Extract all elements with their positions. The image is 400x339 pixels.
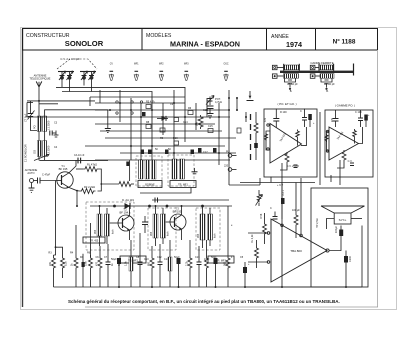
left page edge dark: [22, 29, 24, 307]
T3 transistor: [166, 206, 187, 240]
volume potentiometer: [206, 96, 214, 106]
amp3 wiring: [329, 236, 341, 251]
svg-text:CT 60 pF: CT 60 pF: [287, 82, 298, 86]
ferrite terminals: [272, 65, 320, 78]
antenna coupling wires: [27, 100, 95, 102]
header table: [23, 29, 378, 51]
diode D2: [157, 116, 168, 121]
svg-text:C17: C17: [203, 151, 208, 154]
page edge: [21, 28, 397, 310]
svg-text:RL 2,2k: RL 2,2k: [251, 234, 254, 243]
bottom amp enclosure: [311, 188, 368, 287]
svg-text:C12: C12: [157, 256, 162, 259]
svg-text:C: C: [270, 207, 272, 210]
MF1 bottom label box: [83, 237, 105, 243]
svg-text:5,6k: 5,6k: [85, 261, 88, 266]
svg-text:CONSTRUCTEUR: CONSTRUCTEUR: [26, 33, 70, 39]
coil wires: [45, 110, 108, 161]
svg-text:kc/s: kc/s: [112, 229, 115, 234]
right area connectors: [228, 154, 232, 158]
amp block 2 box (GAMME PO): [325, 110, 373, 177]
svg-text:R5 4,7k: R5 4,7k: [146, 101, 155, 104]
svg-text:( GAMME PO. ): ( GAMME PO. ): [335, 104, 355, 108]
svg-text:D. AA 119: D. AA 119: [122, 198, 134, 202]
svg-text:MARINA - ESPADON: MARINA - ESPADON: [170, 40, 240, 49]
ferrite coil L-PO top: [284, 65, 299, 70]
cap C3: [50, 131, 59, 138]
svg-text:C11: C11: [203, 109, 208, 112]
svg-text:PO: PO: [34, 125, 37, 129]
svg-text:MF2: MF2: [159, 64, 164, 66]
svg-text:L1 2500: L1 2500: [47, 120, 51, 130]
wires T1 bias: [76, 190, 78, 192]
svg-text:R2 2,2kΩ: R2 2,2kΩ: [84, 185, 95, 189]
amp2 components: [325, 110, 368, 182]
svg-text:100 µF: 100 µF: [292, 209, 300, 212]
amp3 pins: [326, 249, 329, 252]
ferrite trimmer CT1: [285, 79, 296, 90]
svg-text:MF3: MF3: [184, 64, 189, 66]
resistor R feedback: [119, 182, 131, 187]
svg-text:C.V. 2 x 320 pF: C.V. 2 x 320 pF: [60, 57, 79, 61]
trimmer adjust symbol 4: [109, 71, 138, 80]
ground pot: [207, 114, 214, 119]
amp block 2 triangle: [329, 127, 359, 160]
osc coils: [139, 160, 157, 179]
tuning gang CV dashed link: [57, 59, 97, 69]
cap C between stages: [142, 216, 148, 233]
amp1 components: [264, 109, 311, 183]
svg-text:50µF: 50µF: [174, 256, 180, 259]
svg-text:CA 10 nF: CA 10 nF: [74, 154, 85, 157]
svg-text:455: 455: [94, 229, 97, 234]
svg-text:C 100: C 100: [355, 111, 362, 114]
trimmer adjust symbol 1: [159, 71, 163, 80]
core adjust arrow right: [247, 91, 254, 101]
MF1 dashed box: [168, 155, 194, 186]
svg-text:100µF: 100µF: [335, 225, 338, 233]
oscillator coil dashed box: [136, 156, 162, 186]
speaker HP: [321, 206, 365, 213]
svg-text:680: 680: [148, 261, 151, 266]
trimmer adjust symbol 3: [224, 71, 228, 80]
elco near T1: [126, 162, 129, 167]
svg-text:C: C: [300, 110, 302, 113]
svg-text:220: 220: [224, 165, 229, 168]
amp3 left resistor: [255, 246, 259, 260]
diode D1 AA119: [125, 203, 131, 209]
MF2 coils: [153, 206, 166, 246]
ferrite coil L-PO bottom: [284, 74, 299, 79]
cap CA 10nF: [155, 198, 158, 203]
speaker label box: [334, 213, 351, 224]
osc label box: [138, 181, 162, 188]
T2 transistor: [110, 206, 135, 240]
svg-text:C13: C13: [164, 258, 169, 261]
svg-text:kc/s: kc/s: [167, 231, 170, 236]
ground antenne auto: [29, 188, 35, 192]
svg-text:BF 194 A: BF 194 A: [119, 211, 130, 215]
variable capacitor CV1: [58, 71, 74, 92]
svg-text:CT 30 pF: CT 30 pF: [324, 82, 335, 86]
wire T1 emitter down: [76, 191, 78, 206]
svg-text:CADRE FERRITE: CADRE FERRITE: [310, 61, 333, 65]
wire gang bottom bus B: [62, 92, 152, 99]
verticals from stage row down: [54, 181, 56, 256]
commutateur dashes: [250, 114, 252, 160]
svg-text:PU: PU: [226, 151, 230, 154]
svg-text:TBA 800: TBA 800: [290, 249, 302, 253]
wires from blocks down: [259, 178, 261, 185]
elco small left: [82, 262, 85, 267]
wire y193: [140, 188, 191, 194]
svg-text:1974: 1974: [286, 40, 302, 49]
IF transformer MF1 coils: [97, 206, 110, 246]
antenna telescopique: [36, 82, 42, 161]
svg-text:BF 195: BF 195: [59, 167, 68, 171]
svg-text:+ 9 V: + 9 V: [277, 183, 283, 187]
bottom row resistors: [52, 255, 56, 271]
svg-text:AUTO: AUTO: [27, 171, 34, 175]
IF stage dashed box 1: [86, 202, 134, 250]
wire y200: [152, 199, 229, 201]
svg-text:N° 1188: N° 1188: [333, 38, 356, 46]
MF1 label box: [170, 181, 196, 188]
wire y184 to R feedback: [101, 183, 119, 185]
trimmer capacitor CT ant: [28, 101, 40, 131]
T1 transistor: [57, 160, 77, 190]
resistor R sw: [254, 121, 258, 135]
svg-text:TR. MF2: TR. MF2: [128, 260, 138, 263]
svg-text:C14: C14: [183, 121, 188, 124]
potentiometer vol BF: [256, 190, 263, 206]
svg-text:Schéma général du récepteur co: Schéma général du récepteur comportant, …: [68, 299, 340, 304]
svg-text:50µF: 50µF: [211, 256, 217, 259]
svg-text:455: 455: [197, 233, 200, 238]
small box resistors in web: [146, 105, 241, 146]
svg-text:455: 455: [150, 231, 153, 236]
svg-text:470: 470: [96, 261, 99, 266]
svg-text:1,5k: 1,5k: [125, 261, 128, 266]
bus verticals: [53, 271, 55, 287]
resistor R1 zigzag horizontal: [83, 167, 99, 172]
MF3 coils: [200, 206, 213, 248]
tiny labels layer: [24, 57, 371, 266]
svg-text:R10: R10: [173, 137, 178, 140]
amp block 1 box (PO ET GO): [264, 109, 317, 177]
wire gang bottom bus A: [56, 87, 185, 97]
bottom bus: [54, 286, 363, 288]
cap CA 10nF: [78, 158, 81, 164]
svg-text:8,2k: 8,2k: [64, 261, 67, 266]
svg-text:( PO. ET GO. ): ( PO. ET GO. ): [277, 102, 296, 106]
svg-text:RL 47kΩ: RL 47kΩ: [87, 163, 97, 167]
svg-text:4,7kΩ: 4,7kΩ: [215, 100, 222, 104]
ground MF1: [192, 168, 198, 174]
elco bf: [281, 198, 285, 204]
svg-text:OSC: OSC: [224, 64, 229, 66]
svg-text:SONOLOR: SONOLOR: [65, 39, 104, 48]
cap C vol: [207, 106, 214, 114]
svg-text:MF1: MF1: [134, 64, 139, 66]
speaker wires: [327, 219, 335, 230]
amp block 1 triangle: [270, 124, 302, 164]
svg-text:B.: B.: [290, 89, 293, 93]
coil core arrow: [34, 155, 49, 161]
ferrite coil GO bottom: [320, 74, 334, 79]
svg-text:HP 2,5Ω: HP 2,5Ω: [316, 218, 319, 228]
svg-text:ANNÉE: ANNÉE: [271, 33, 289, 40]
svg-text:B.: B.: [326, 89, 329, 93]
svg-text:TR. MF1: TR. MF1: [178, 184, 188, 187]
variable capacitor CV2: [80, 71, 96, 92]
svg-text:C10: C10: [144, 258, 149, 261]
svg-text:S.H.L: S.H.L: [339, 218, 347, 222]
trans label boxes bottom: [120, 256, 146, 263]
svg-text:C15: C15: [208, 125, 213, 128]
svg-text:C.V. 250pF: C.V. 250pF: [287, 165, 300, 168]
IF transformer MF2 dashed box: [148, 208, 176, 250]
svg-text:kc/s: kc/s: [214, 233, 217, 238]
svg-text:BF 195: BF 195: [173, 210, 182, 214]
antenne auto connector: [30, 178, 57, 189]
amp3 top components: [263, 183, 299, 245]
small elco caps in web: [141, 148, 217, 154]
IF transformer MF3 dashed box: [196, 208, 220, 250]
svg-text:560: 560: [224, 261, 227, 266]
antenna coil T-ANT PO: [37, 116, 46, 132]
svg-text:11 SONOLOR: 11 SONOLOR: [24, 144, 28, 162]
svg-text:U.Z.L: U.Z.L: [282, 189, 285, 196]
trimmer adjust symbol 2: [184, 71, 188, 80]
svg-text:C100: C100: [349, 255, 352, 262]
ferrite rod bar: [280, 64, 354, 76]
main left web wires: [27, 102, 33, 104]
bottom frame line: [85, 306, 378, 308]
svg-text:50µF: 50µF: [118, 260, 121, 266]
svg-text:CV: CV: [110, 64, 114, 66]
svg-text:MODÈLES: MODÈLES: [146, 32, 172, 39]
web open terminals: [116, 101, 143, 114]
vertical x129.6: [129, 160, 131, 181]
right frame line: [377, 50, 379, 307]
svg-text:TR. 455: TR. 455: [90, 240, 99, 243]
svg-text:C.V.: C.V.: [348, 160, 353, 163]
svg-text:470: 470: [204, 258, 209, 261]
svg-text:BOBINE: BOBINE: [145, 184, 155, 187]
gang rotor blobs: [60, 76, 93, 80]
ferrite trimmer CT2: [321, 79, 332, 90]
svg-text:R 100: R 100: [280, 111, 287, 114]
ferrite coil GO top: [319, 65, 333, 70]
resistor R4 vertical zigzag: [198, 115, 203, 129]
big triangle TBA800: [271, 219, 327, 282]
svg-text:R 56: R 56: [260, 213, 263, 219]
wire y160: [39, 159, 108, 161]
svg-text:50µF: 50µF: [111, 258, 117, 261]
bus junction dots: [76, 205, 347, 288]
antenna coil T-ANT GO: [37, 141, 46, 157]
junction dots web: [109, 97, 247, 161]
svg-text:C16: C16: [195, 256, 200, 259]
svg-text:CT 8pF: CT 8pF: [25, 113, 28, 122]
wire top rail y206: [90, 205, 232, 207]
svg-text:L2 2500: L2 2500: [47, 145, 51, 155]
MF1 coils top: [172, 159, 185, 179]
svg-text:2,2k: 2,2k: [186, 261, 189, 266]
svg-text:C 47pF: C 47pF: [42, 174, 51, 177]
resistor R2 zigzag horizontal: [80, 189, 96, 194]
svg-text:GO: GO: [34, 150, 37, 154]
wire between blocks: [319, 112, 321, 178]
